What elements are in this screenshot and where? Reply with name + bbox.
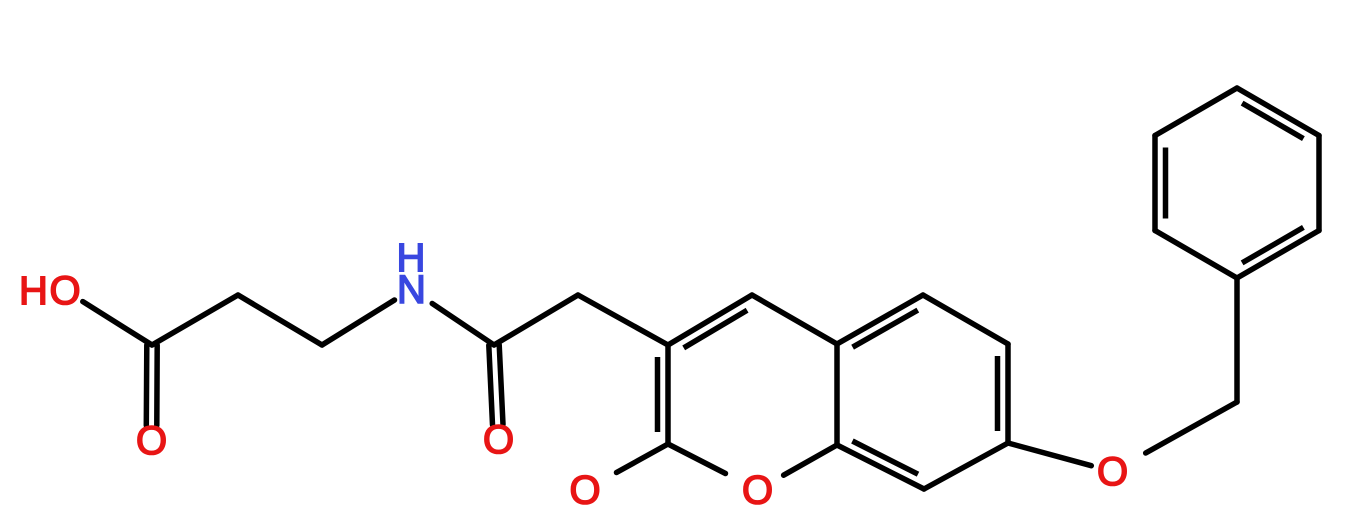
bond O-CH2 benzylic [1146,402,1237,453]
bond O1-C8a [784,445,837,475]
coumarin C3-C2 double (inner west) [665,345,671,444]
phenyl RT=RUR double [1237,88,1319,136]
phenyl RLL=RUL double [1152,136,1158,231]
bond HO-C1 [83,302,152,345]
svg-text:O: O [1097,450,1128,494]
svg-text:O: O [569,469,600,513]
carboxyl C1=O double bond [144,345,150,426]
bond CH2-phenyl [1234,278,1240,402]
svg-text:N: N [397,268,426,312]
bond C2-C3 chain [238,295,322,345]
bond CH2-C3 coumarin [578,295,668,345]
bond C4-CH2 linker [494,295,578,345]
svg-text:O: O [49,269,80,313]
coumarin C4-C3 (inner SE) [668,295,752,345]
bond C2-O exo [617,444,669,473]
bond C3-N [322,300,395,345]
phenyl RLR=RB double [1237,231,1319,279]
benzo C7-C8 [924,443,1008,489]
svg-text:H: H [19,269,48,313]
phenyl RUL-RT [1155,88,1237,136]
svg-text:O: O [483,418,514,462]
bond N-C4 amide [432,304,494,346]
bond C2-O1 ring [668,444,726,474]
bond C4a-C4 coumarin [752,295,837,344]
svg-text:O: O [742,469,773,513]
benzo C4a=C5 double [837,295,923,344]
bond C7-O ether [1008,443,1091,466]
benzo C6=C7 double (inner west) [1005,344,1011,443]
benzo C8=C8a double [837,445,924,489]
amide C4=O double bond [489,345,493,425]
svg-text:O: O [136,419,167,463]
benzo C5-C6 [923,295,1008,344]
phenyl RB-RLL [1155,231,1237,279]
phenyl RUR-RLR [1316,136,1322,231]
bond C8a-C4a fused edge [834,344,840,445]
bond C1-C2 chain [152,295,238,345]
